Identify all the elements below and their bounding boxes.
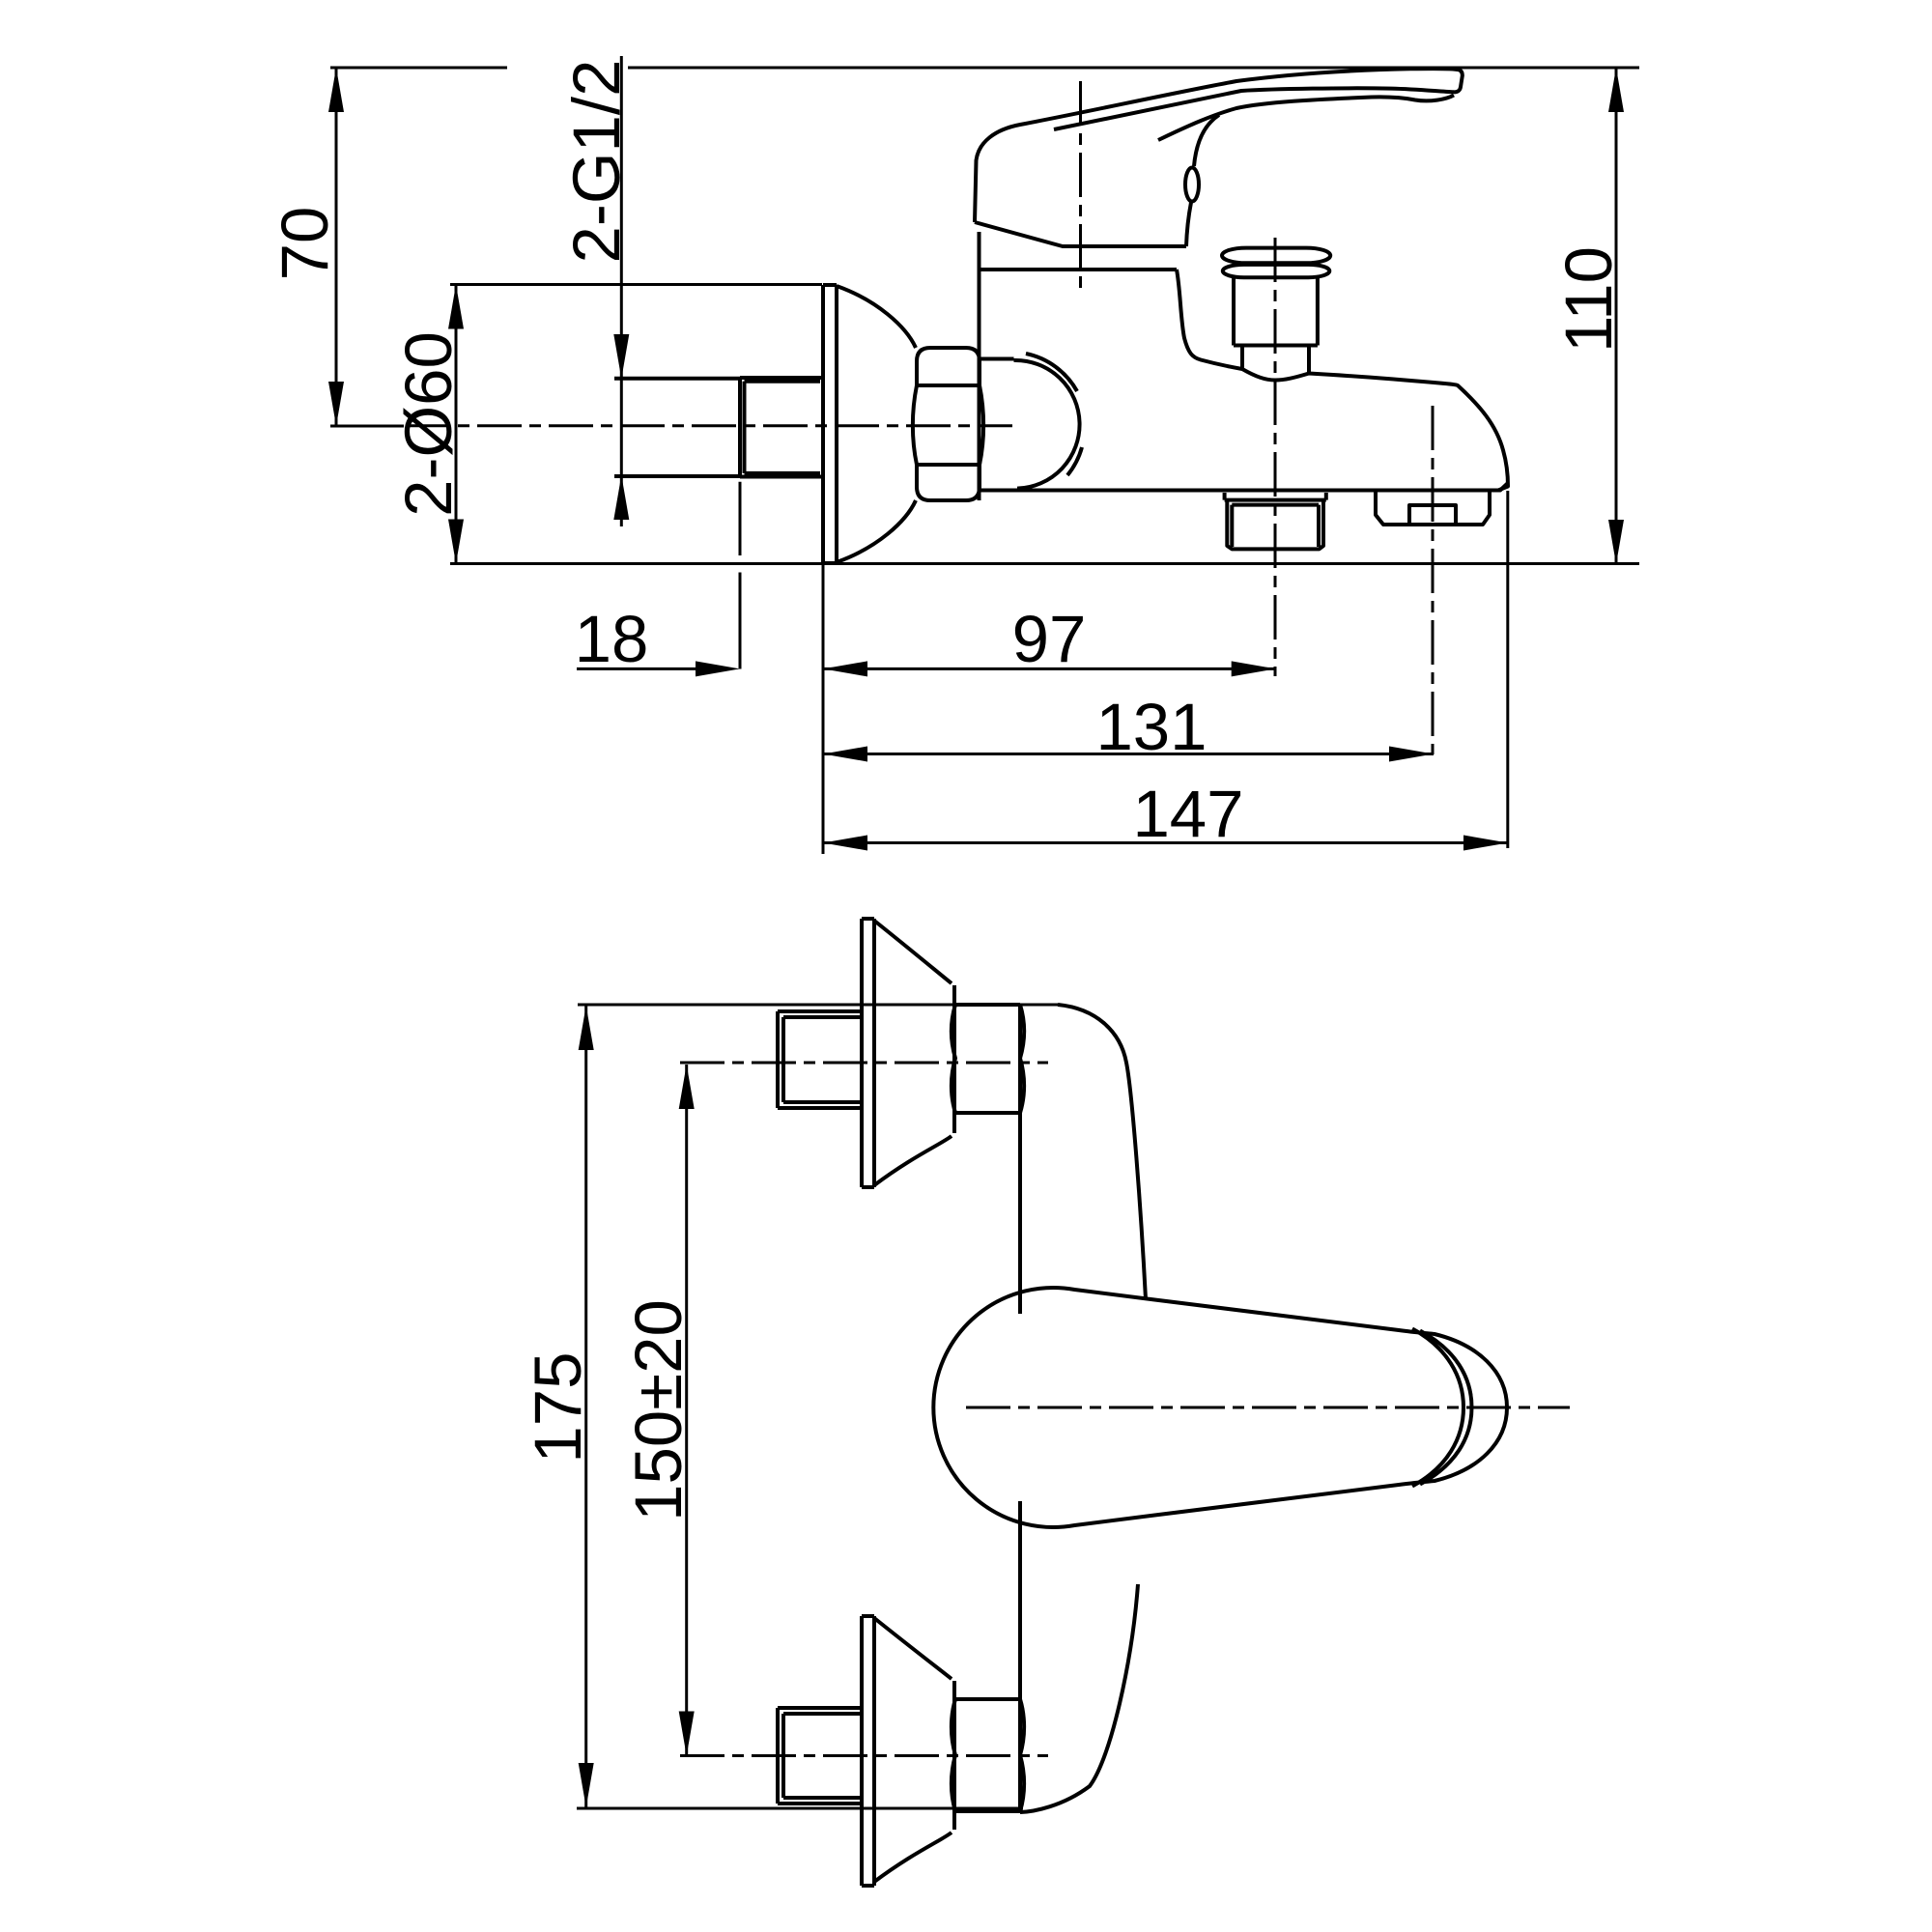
hex nut facet lines xyxy=(917,385,980,465)
upper cone top curve xyxy=(874,921,952,983)
body right and spout top outline xyxy=(1177,270,1508,491)
svg-text:70: 70 xyxy=(268,207,342,281)
dimension 2-G1/2 arrow down xyxy=(613,334,629,379)
dimension 2-G1/2 leader line xyxy=(620,56,623,526)
upper hex nut plan xyxy=(952,1005,1024,1113)
dimension 110 arrow top xyxy=(1608,68,1624,112)
dimension 2-Ø60 extension top xyxy=(450,283,822,286)
extension line y=1872 xyxy=(577,1807,1023,1810)
dimension 97 arrow right xyxy=(1232,661,1276,676)
dimension 150±20 arrow top xyxy=(679,1065,695,1109)
dimension 2-Ø60 arrow bottom xyxy=(448,520,464,564)
flange cone top xyxy=(837,286,916,348)
dimension 131 arrow left xyxy=(823,747,867,762)
diverter knob cap top xyxy=(1222,248,1330,264)
hex nut side view xyxy=(913,348,983,500)
eccentric union inner lines xyxy=(745,382,821,473)
dimension 150±20 arrow bottom xyxy=(679,1712,695,1756)
lower thread inner lines xyxy=(783,1714,861,1798)
diverter centerline x=1320 xyxy=(1274,238,1277,676)
dimension 175 arrow top xyxy=(579,1006,594,1050)
shower hose connector flange xyxy=(1225,493,1326,500)
svg-text:110: 110 xyxy=(1551,246,1626,353)
diverter knob cap lower disc xyxy=(1223,265,1330,277)
shower hose connector thread xyxy=(1227,500,1323,550)
wall flange plate xyxy=(823,285,837,563)
plan body right edge lower xyxy=(1020,1584,1138,1812)
dimension 147 line xyxy=(823,841,1508,844)
dimension 2-Ø60 arrow top xyxy=(448,285,464,329)
dimension 70 line xyxy=(335,68,338,426)
dimension 131 arrow right xyxy=(1389,747,1434,762)
spout aerator notch xyxy=(1409,505,1456,525)
spout aerator xyxy=(1376,491,1490,525)
upper cone bottom curve xyxy=(874,1136,952,1185)
svg-text:2-Ø60: 2-Ø60 xyxy=(391,331,466,517)
dimension 70 arrow bottom xyxy=(328,382,344,426)
extension line y=1040 xyxy=(578,1004,1058,1007)
dimension 147 arrow right xyxy=(1463,836,1508,851)
dimension 175 arrow bottom xyxy=(579,1763,594,1807)
dimension 131 line xyxy=(823,753,1434,755)
dimension 110 line xyxy=(1615,68,1618,564)
dimension 97 arrow left xyxy=(823,661,867,676)
body bottom edge xyxy=(980,483,1509,491)
body pipe top edge xyxy=(980,357,1014,361)
wall face extension x=852 xyxy=(822,564,825,854)
dimension 18 arrow xyxy=(696,661,740,676)
svg-text:2-G1/2: 2-G1/2 xyxy=(559,60,634,264)
plan body right edge upper xyxy=(1058,1005,1146,1299)
handle tip seam arc 1 xyxy=(1412,1329,1463,1487)
dimension 2-G1/2 arrow up xyxy=(613,475,629,520)
flange cone bottom xyxy=(837,500,916,562)
inlet pipe thin lines xyxy=(614,379,740,476)
lower hex nut plan xyxy=(952,1699,1024,1811)
handle cap and lever outline xyxy=(975,69,1463,222)
centerline horizontal y=441 xyxy=(406,424,1012,427)
dimension 110 arrow bottom xyxy=(1608,520,1624,564)
outer arc lower xyxy=(1067,447,1082,475)
shower hose connector thread minor xyxy=(1232,505,1319,547)
handle logo ellipse xyxy=(1185,168,1199,202)
upper cone rim xyxy=(952,985,956,1133)
svg-text:18: 18 xyxy=(575,602,649,676)
dimension 97 line xyxy=(823,668,1276,670)
body left edge xyxy=(978,232,981,500)
diverter knob cylinder xyxy=(1234,277,1318,345)
dimension 18 line xyxy=(577,668,699,670)
lower cone rim xyxy=(952,1681,956,1830)
plan body left edge xyxy=(1018,1005,1022,1812)
cartridge centerline x=1118.5 xyxy=(1079,81,1082,295)
extension line y=441 left xyxy=(330,425,404,428)
lower cone top curve xyxy=(874,1618,952,1679)
handle plan teardrop xyxy=(933,1288,1507,1527)
upper wall plate xyxy=(862,919,874,1187)
centerline upper mount y=1100 xyxy=(680,1062,1048,1065)
dimension 150±20 line xyxy=(685,1065,688,1756)
baseline extension y=583.5 xyxy=(450,562,1639,565)
handle cap right edge xyxy=(1186,115,1219,246)
dimension 175 line xyxy=(584,1006,587,1807)
outer arc upper xyxy=(1026,354,1077,391)
spout edge extension x=1560.8 xyxy=(1506,491,1509,848)
svg-text:175: 175 xyxy=(521,1351,595,1463)
svg-text:147: 147 xyxy=(1132,777,1243,851)
dimension 147 arrow left xyxy=(823,836,867,851)
dome arc xyxy=(1014,360,1080,489)
dimension 70 arrow top xyxy=(328,68,344,112)
handle ridge line xyxy=(1158,96,1454,141)
upper thread plan xyxy=(778,1011,861,1108)
lower cone bottom curve xyxy=(874,1833,952,1882)
handle tip seam arc 2 xyxy=(1420,1331,1472,1485)
lower wall plate xyxy=(862,1616,874,1886)
svg-text:150±20: 150±20 xyxy=(621,1299,696,1521)
eccentric union body xyxy=(740,378,823,477)
centerline lower mount y=1817.5 xyxy=(680,1754,1048,1757)
body top edge xyxy=(980,268,1177,271)
centerline handle y=1457 xyxy=(966,1406,1570,1409)
svg-text:97: 97 xyxy=(1012,602,1087,676)
upper thread inner lines xyxy=(783,1017,861,1102)
extension line top y=70 xyxy=(330,67,1639,70)
dimension 2-Ø60 line xyxy=(455,285,458,564)
diverter knob stem xyxy=(1242,346,1309,374)
extension line union face x=766 xyxy=(739,482,742,669)
svg-text:131: 131 xyxy=(1095,690,1207,764)
handle skirt xyxy=(975,222,1186,246)
spout outlet centerline x=1483 xyxy=(1432,406,1435,754)
lower thread plan xyxy=(778,1708,861,1804)
